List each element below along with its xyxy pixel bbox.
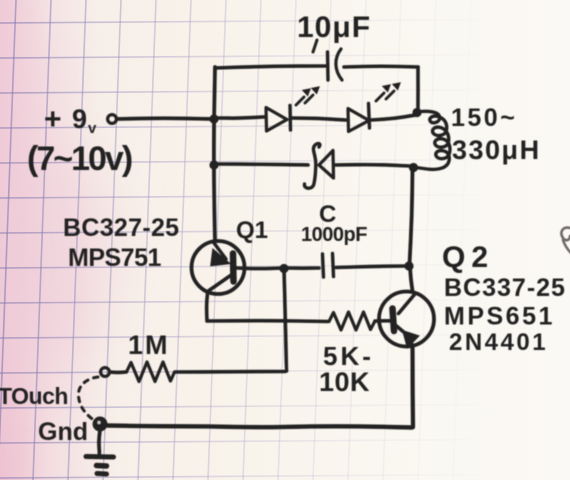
svg-text:1000pF: 1000pF [301,224,367,246]
svg-text:BC337-25: BC337-25 [444,274,566,302]
svg-text:2N4401: 2N4401 [449,329,548,356]
svg-text:v: v [88,120,97,137]
svg-text:9: 9 [72,104,87,134]
svg-text:Gnd: Gnd [38,418,88,446]
svg-text:10μF: 10μF [297,11,371,44]
svg-text:150~: 150~ [451,104,517,132]
svg-text:(7~10v): (7~10v) [27,140,132,178]
svg-text:TOuch: TOuch [0,383,68,409]
svg-text:10K: 10K [319,367,370,397]
svg-text:BC327-25: BC327-25 [63,214,179,242]
svg-text:+: + [44,103,62,136]
svg-text:Q2: Q2 [442,241,494,274]
svg-text:330μH: 330μH [452,135,541,165]
svg-text:1M: 1M [128,330,170,360]
svg-text:MPS751: MPS751 [68,244,161,272]
svg-text:MPS651: MPS651 [444,303,555,331]
svg-text:Q1: Q1 [236,217,268,244]
